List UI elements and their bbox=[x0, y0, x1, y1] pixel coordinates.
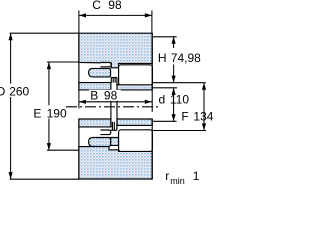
upper roller bbox=[119, 65, 153, 85]
right side face lower bbox=[151, 119, 153, 179]
lower center rib bbox=[111, 138, 119, 146]
upper lubrication groove hatching bbox=[111, 78, 119, 85]
dimension d reference top bbox=[152, 87, 177, 89]
lower cage bar (white) bbox=[100, 130, 110, 135]
svg-text:190: 190 bbox=[47, 106, 67, 120]
svg-text:r: r bbox=[165, 169, 169, 183]
arrow d bottom bbox=[172, 114, 176, 121]
arrow E bottom bbox=[47, 143, 51, 150]
arrow C left bbox=[79, 13, 86, 17]
arrow H bottom bbox=[172, 76, 176, 83]
inner ring lower left bbox=[79, 119, 111, 127]
lubrication hole wall right bbox=[116, 101, 118, 127]
dimension F line bbox=[203, 83, 205, 130]
left side face bbox=[78, 33, 80, 90]
inner ring upper left bbox=[79, 83, 111, 90]
dimension C extension line left bbox=[78, 11, 80, 34]
arrow B left bbox=[79, 100, 86, 104]
inner ring lower right bbox=[117, 119, 152, 125]
dimension E line upper bbox=[48, 62, 50, 105]
left side face lower bbox=[78, 119, 80, 179]
outer ring lower section bbox=[79, 147, 152, 179]
dimension B line bbox=[79, 101, 152, 103]
dimension d line bbox=[173, 88, 175, 120]
svg-text:H: H bbox=[158, 51, 167, 65]
dimension D line upper bbox=[10, 33, 12, 83]
lubrication hole wall left bbox=[110, 101, 112, 127]
arrow H top bbox=[172, 37, 176, 44]
arrow d top bbox=[172, 88, 176, 95]
dimension E reference bottom bbox=[47, 149, 79, 151]
right side face bbox=[151, 33, 153, 90]
inner ring upper right bbox=[117, 85, 152, 90]
svg-text:110: 110 bbox=[170, 92, 189, 106]
dimension d reference bottom bbox=[152, 120, 176, 122]
lower roller bbox=[119, 130, 153, 152]
svg-text:C: C bbox=[92, 0, 101, 12]
dimension F reference bottom bbox=[152, 130, 206, 132]
arrow B right bbox=[145, 100, 152, 104]
dimension D line lower bbox=[10, 97, 12, 179]
dimension C line bbox=[79, 14, 152, 16]
svg-text:d: d bbox=[159, 92, 166, 106]
arrow C right bbox=[145, 13, 152, 17]
dimension C extension line right bbox=[151, 11, 153, 34]
dimension B extension left bbox=[78, 90, 80, 109]
arrow E top bbox=[47, 62, 51, 69]
arrow F bottom bbox=[202, 123, 206, 130]
dimension H reference top bbox=[152, 36, 177, 38]
dimension E reference top bbox=[47, 61, 79, 63]
svg-text:260: 260 bbox=[9, 84, 29, 98]
dimension H line lower bbox=[173, 65, 175, 83]
dimension H line upper bbox=[173, 37, 175, 48]
lower lubrication groove hatching bbox=[111, 122, 119, 131]
lower seal bar (hatched) bbox=[89, 138, 111, 147]
upper cage bar (white) bbox=[100, 63, 111, 67]
svg-text:B: B bbox=[90, 88, 98, 102]
svg-text:D: D bbox=[0, 84, 6, 98]
svg-text:E: E bbox=[33, 106, 41, 120]
label B background box bbox=[89, 90, 121, 101]
dimension D reference top bbox=[10, 32, 79, 34]
dimension B extension right bbox=[151, 90, 153, 112]
svg-text:F: F bbox=[181, 110, 188, 124]
svg-text:min: min bbox=[170, 176, 185, 186]
svg-text:98: 98 bbox=[104, 88, 118, 102]
outer ring upper section bbox=[79, 33, 152, 68]
upper seal bar (hatched) bbox=[89, 68, 111, 77]
dimension E line lower bbox=[48, 119, 50, 151]
svg-text:1: 1 bbox=[193, 169, 200, 183]
arrow F top bbox=[202, 83, 206, 90]
svg-text:134: 134 bbox=[193, 110, 213, 124]
arrow D bottom bbox=[9, 172, 13, 179]
arrow D top bbox=[9, 33, 13, 40]
dimension D reference bottom bbox=[10, 178, 79, 180]
axis centerline bbox=[66, 106, 160, 108]
svg-text:98: 98 bbox=[108, 0, 122, 12]
svg-text:74,98: 74,98 bbox=[171, 51, 201, 65]
dimension F reference top bbox=[152, 82, 206, 84]
